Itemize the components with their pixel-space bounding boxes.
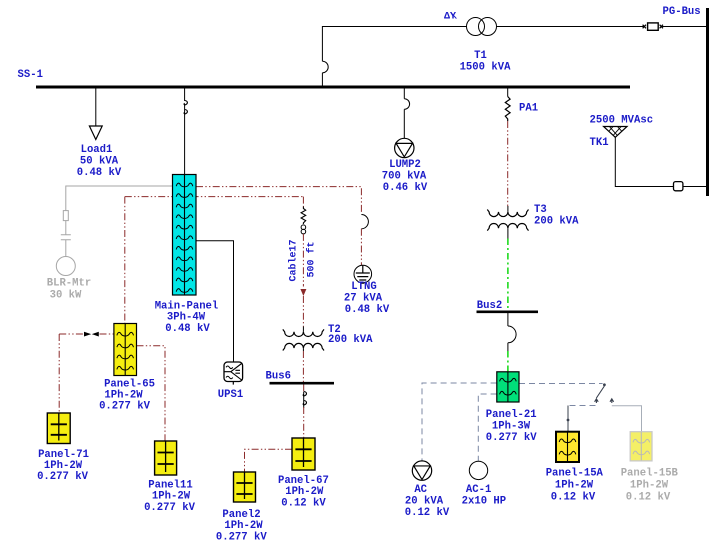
panel Main-Panel: [173, 175, 197, 296]
svg-text:0.277 kV: 0.277 kV: [144, 502, 196, 514]
wire SS-1 riser to T1: [321, 73, 323, 86]
fuse link symbol: [84, 332, 99, 337]
svg-text:0.12 kV: 0.12 kV: [405, 507, 450, 519]
wire Main-Panel feeder to Panel-65 and Cable17 (dash-dot): [125, 196, 304, 198]
svg-text:BLR-Mtr: BLR-Mtr: [47, 277, 92, 289]
motor BLR-Mtr: [56, 257, 75, 276]
wire Panel-21 to AC-1 (dashed): [478, 394, 496, 461]
svg-text:T1: T1: [474, 50, 487, 62]
fuse PA1: [505, 97, 510, 122]
svg-text:Panel-65: Panel-65: [104, 378, 155, 390]
svg-text:Cable17: Cable17: [288, 239, 300, 281]
wire Main-Panel to BLR-Mtr (gray): [66, 186, 173, 211]
wire T3 to Bus2 (green): [507, 239, 509, 311]
svg-text:20 kVA: 20 kVA: [405, 496, 444, 508]
svg-text:0.277 kV: 0.277 kV: [486, 432, 538, 444]
svg-text:0.277 kV: 0.277 kV: [37, 471, 89, 483]
svg-text:1Ph-2W: 1Ph-2W: [44, 460, 83, 472]
switch on Cable17: [301, 207, 306, 225]
wire Bus2 drop: [507, 313, 509, 326]
wire switch to Panel-15A: [568, 405, 596, 407]
wire Bus6 to Panel-67 (dash-dot): [303, 407, 305, 438]
svg-text:1Ph-2W: 1Ph-2W: [555, 479, 594, 491]
load LTNG arrester: [354, 265, 372, 283]
svg-text:0.277 kV: 0.277 kV: [99, 401, 151, 413]
wire riser upper: [322, 27, 466, 62]
svg-text:1Ph-2W: 1Ph-2W: [152, 491, 191, 503]
svg-text:700 kVA: 700 kVA: [382, 171, 427, 183]
svg-text:Load1: Load1: [81, 144, 113, 156]
load AC: [412, 461, 431, 480]
svg-text:2x10 HP: 2x10 HP: [462, 496, 507, 508]
panel Panel-21: [497, 372, 519, 402]
wire Panel-67 to Panel2 (dash-dot): [245, 449, 293, 472]
svg-text:0.46 kV: 0.46 kV: [383, 182, 428, 194]
wire Cable17 (dash-dot): [302, 234, 304, 287]
wire Main-Panel to LTNG feeder (dash-dot): [196, 187, 361, 214]
contactor BLR-Mtr: [61, 235, 71, 240]
svg-text:0.12 kV: 0.12 kV: [551, 491, 596, 503]
wire: [65, 240, 67, 257]
svg-text:0.12 kV: 0.12 kV: [281, 497, 326, 509]
panel Panel2: [234, 472, 256, 502]
svg-text:1Ph-3W: 1Ph-3W: [492, 420, 531, 432]
svg-text:TK1: TK1: [590, 137, 609, 149]
transformer T1: [467, 18, 485, 36]
svg-text:1500 kVA: 1500 kVA: [460, 62, 512, 74]
fuse on LUMP2 feed: [404, 99, 409, 110]
svg-text:0.12 kV: 0.12 kV: [626, 491, 671, 503]
svg-text:30 kW: 30 kW: [50, 289, 82, 301]
wire Panel-65 to Panel11 (dash-dot): [137, 346, 166, 441]
wire T1 to PG-Bus breaker: [497, 26, 645, 28]
bus Bus2: [477, 310, 539, 313]
cable Cable17 symbol: [301, 225, 306, 230]
svg-text:0.277 kV: 0.277 kV: [216, 531, 268, 543]
svg-text:ΔY: ΔY: [444, 12, 456, 23]
wire Panel-65 riser: [124, 197, 126, 324]
wire SS-1 to Main-Panel: [184, 89, 186, 102]
svg-text:1Ph-2W: 1Ph-2W: [224, 520, 263, 532]
panel Panel-71: [47, 413, 70, 444]
svg-text:AC-1: AC-1: [466, 484, 491, 496]
svg-text:3Ph-4W: 3Ph-4W: [167, 312, 206, 324]
motor AC-1: [469, 461, 487, 479]
wire Cable17 lower (dash-dot): [302, 296, 304, 327]
svg-text:Panel-15A: Panel-15A: [546, 467, 604, 479]
panel Panel-15B: [630, 432, 652, 461]
svg-text:UPS1: UPS1: [218, 389, 243, 401]
svg-text:2500 MVAsc: 2500 MVAsc: [590, 115, 654, 127]
wire to Panel-21 (green): [507, 343, 509, 351]
svg-text:Panel-15B: Panel-15B: [621, 467, 679, 479]
svg-text:Main-Panel: Main-Panel: [155, 300, 219, 312]
svg-text:LTNG: LTNG: [351, 281, 376, 293]
svg-text:500 ft: 500 ft: [305, 241, 317, 277]
svg-text:Bus2: Bus2: [477, 300, 502, 312]
panel Panel11: [155, 441, 177, 475]
panel Panel-67: [292, 438, 315, 470]
wire SS-1 to Load1: [95, 89, 97, 127]
transformer T3: [507, 206, 509, 212]
svg-text:1Ph-2W: 1Ph-2W: [285, 486, 324, 498]
load Load1 arrow: [89, 126, 102, 140]
svg-text:T3: T3: [534, 204, 547, 216]
switch-fuse on Main-Panel feed: [184, 101, 187, 105]
arrow on Cable17: [300, 289, 306, 296]
wire Panel-21 to AC (dashed): [422, 383, 497, 461]
wire breaker to PG-Bus lower: [683, 186, 707, 188]
switch-fuse below Bus6: [303, 385, 305, 393]
svg-text:Panel2: Panel2: [222, 509, 260, 521]
transfer switch: [603, 383, 606, 386]
svg-text:PG-Bus: PG-Bus: [663, 6, 701, 18]
svg-text:200 kVA: 200 kVA: [534, 216, 579, 228]
wire T2 to Bus6 (dash-dot): [302, 351, 304, 382]
svg-text:LUMP2: LUMP2: [389, 159, 421, 171]
bus PG-Bus: [706, 8, 709, 196]
transformer T2: [302, 327, 304, 332]
wire SS-1 to LUMP2: [403, 89, 405, 99]
wire LTNG lower (dash-dot): [360, 229, 362, 265]
svg-text:AC: AC: [414, 484, 427, 496]
breaker TK1-PGBus: [674, 182, 683, 191]
svg-text:PA1: PA1: [519, 103, 538, 115]
wire to LUMP2: [403, 109, 405, 138]
svg-text:Panel-67: Panel-67: [278, 475, 329, 487]
svg-text:200 kVA: 200 kVA: [328, 334, 373, 346]
svg-text:50 kVA: 50 kVA: [80, 156, 119, 168]
svg-text:Panel11: Panel11: [148, 479, 193, 491]
panel Panel-15A: [556, 432, 579, 462]
wire Main-Panel to UPS1: [196, 241, 234, 362]
svg-text:1Ph-2W: 1Ph-2W: [630, 479, 669, 491]
fuse on LTNG riser: [361, 215, 368, 229]
bus SS-1: [36, 86, 630, 89]
wire Panel-65 to Panel-71 (dash-dot): [58, 334, 60, 413]
wire SS-1 to PA1: [507, 89, 509, 97]
svg-text:SS-1: SS-1: [18, 69, 43, 81]
panel Panel-65: [114, 324, 137, 376]
wire switch to Panel-15B: [612, 406, 642, 432]
ups UPS1: [224, 362, 243, 382]
svg-text:0.48 kV: 0.48 kV: [165, 323, 210, 335]
svg-text:1Ph-2W: 1Ph-2W: [104, 390, 143, 402]
svg-text:Panel-21: Panel-21: [486, 409, 537, 421]
svg-text:27 kVA: 27 kVA: [344, 292, 383, 304]
svg-text:Bus6: Bus6: [266, 370, 291, 382]
breaker on PG-Bus tie: [643, 25, 663, 29]
svg-text:0.48 kV: 0.48 kV: [345, 304, 390, 316]
bus Bus6: [270, 382, 335, 385]
wire breaker to PG-Bus: [662, 26, 707, 28]
fuse below Bus2: [508, 326, 516, 343]
wire TK1 to breaker: [615, 137, 673, 186]
svg-text:0.48 kV: 0.48 kV: [77, 167, 122, 179]
fuse on T1 riser: [322, 61, 328, 73]
svg-text:Panel-71: Panel-71: [38, 449, 89, 461]
wire Main-Panel to Cable17 (dash-dot): [302, 197, 304, 207]
wire PA1 to T3 (dash-dot): [507, 121, 509, 206]
wire Panel-21 to transfer switch (dashed): [519, 383, 603, 385]
fuse BLR-Mtr: [63, 211, 68, 221]
load LUMP2: [395, 138, 414, 157]
wire: [65, 221, 67, 235]
